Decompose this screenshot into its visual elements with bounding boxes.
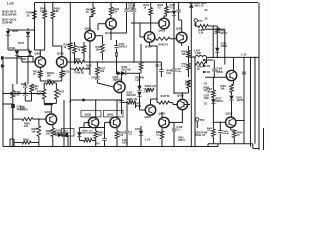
svg-text:150: 150 — [113, 11, 118, 14]
text bottom awf — [96, 144, 100, 146]
svg-text:R445 75: R445 75 — [159, 44, 169, 47]
svg-text:Q403: Q403 — [57, 52, 64, 56]
resistor R416 — [73, 46, 77, 54]
wire R453t stub — [188, 46, 190, 51]
wire Q439 Q441 bases — [79, 122, 111, 128]
wire Q441 emitter — [116, 127, 118, 131]
label Q423 — [159, 29, 166, 33]
wire C415 — [178, 3, 180, 21]
label Q409 — [85, 26, 92, 30]
resistor R453 — [94, 131, 98, 139]
wire output line right — [207, 57, 260, 59]
resistor R463h — [198, 24, 208, 27]
label D453 — [82, 129, 94, 134]
label Q437 — [45, 110, 52, 114]
resistor R415 — [60, 71, 64, 78]
part list Q415 Q417 — [2, 10, 17, 17]
resistor R445 — [156, 37, 170, 40]
svg-text:C417: C417 — [155, 65, 161, 68]
label R419 10k — [96, 46, 103, 52]
transistor Q429 — [177, 99, 187, 109]
wire x64 top — [63, 100, 65, 106]
diode D413 — [121, 71, 125, 75]
label Q403 — [57, 52, 64, 56]
svg-text:Q401: Q401 — [35, 52, 42, 56]
label C433 inbox — [63, 129, 70, 134]
label R415 47 — [64, 71, 71, 77]
label C418 — [176, 68, 182, 73]
capacitor C415 — [176, 10, 180, 12]
capacitor C417 — [159, 70, 163, 72]
wire bus x127 low — [126, 133, 128, 146]
label R413 47 — [33, 71, 40, 77]
svg-text:5.6k: 5.6k — [167, 73, 172, 75]
label R449v — [207, 127, 213, 132]
label D433 — [56, 130, 64, 136]
wire C429 wires — [220, 122, 221, 144]
resistor R455 — [187, 63, 191, 70]
svg-text:6903 -25: 6903 -25 — [195, 6, 205, 8]
wire R487 wires — [38, 118, 40, 142]
wire R411 tail — [25, 92, 31, 101]
label R452 — [156, 131, 162, 137]
wire R489 wires — [52, 124, 54, 146]
label VR405 — [145, 85, 157, 88]
resistor R409 — [11, 91, 15, 99]
capacitor C413 — [95, 77, 99, 80]
label R463 — [199, 29, 205, 35]
label D415b — [135, 128, 141, 131]
label R423 — [64, 44, 70, 50]
wire L-R parallel — [195, 57, 207, 63]
text col C427 — [204, 95, 210, 101]
svg-text:D415: D415 — [135, 128, 141, 131]
label R411 1.8k — [33, 85, 39, 91]
label R461 39k — [221, 85, 227, 91]
wire ladder tail — [17, 57, 36, 85]
transistor Q431 — [226, 117, 236, 127]
svg-text:0.0047: 0.0047 — [223, 132, 230, 135]
transistor Q419 — [144, 32, 155, 43]
wire R461 tail — [231, 93, 233, 96]
label C419 — [177, 126, 183, 132]
label R455b — [119, 132, 125, 138]
capacitor C405 — [23, 85, 27, 88]
inductor L401 — [195, 56, 206, 58]
label Q439 — [85, 112, 92, 116]
resistor R421 — [91, 8, 95, 16]
node box Q441 label — [104, 110, 124, 117]
svg-text:L-24: L-24 — [145, 139, 151, 142]
svg-text:R447 56: R447 56 — [161, 95, 171, 98]
resistor R455b — [115, 131, 119, 139]
label R459 75 — [237, 132, 243, 138]
wire blob to Q437 — [50, 105, 52, 114]
resistor R449v — [212, 129, 216, 137]
label R465 10 — [197, 66, 203, 72]
diode D403 — [26, 32, 30, 36]
wire bottom-right jog — [208, 144, 259, 149]
capacitor C409 — [116, 52, 118, 56]
capacitor C403 blob — [11, 104, 15, 108]
label C425 — [217, 68, 223, 74]
wire D415 wires — [140, 126, 142, 147]
wire bus x174 low — [173, 15, 183, 94]
capacitor C418 inline — [172, 69, 176, 71]
label R439col — [135, 77, 141, 83]
svg-text:10/50: 10/50 — [122, 143, 128, 145]
label D417 — [168, 11, 173, 14]
wire R455b tail — [116, 139, 118, 147]
wire C437 wires — [104, 128, 106, 147]
label C429 — [223, 130, 230, 135]
label R433 1k — [58, 91, 64, 97]
label 5W — [141, 78, 145, 80]
label R403 1.8k — [54, 8, 61, 14]
wire x64 bus — [63, 106, 65, 147]
resistor R443 — [165, 6, 169, 14]
resistor R451 — [84, 139, 93, 142]
diode D427 — [211, 99, 215, 103]
label D425 10D4 — [195, 2, 207, 8]
label C417 — [155, 65, 161, 68]
resistor R456 — [187, 80, 191, 88]
resistor R485 — [22, 118, 33, 121]
wire top supply rail — [35, 2, 259, 4]
resistor R487 — [37, 126, 41, 137]
resistor R439 — [33, 11, 37, 20]
wire bus x250 — [250, 57, 251, 147]
capacitor C419 — [172, 129, 176, 131]
wire R452 tail — [161, 139, 163, 147]
wire R459 tail — [233, 138, 235, 144]
node input arrow 2 — [1, 64, 5, 68]
label R409 5.6k — [15, 91, 22, 97]
svg-text:Q429: Q429 — [177, 94, 184, 98]
wire Q419 base — [131, 23, 160, 37]
wire R491 wires — [10, 139, 39, 147]
label D407 — [18, 41, 25, 45]
label C435 box — [219, 30, 227, 36]
wire terminal — [195, 22, 196, 27]
svg-text:10D01: 10D01 — [178, 140, 185, 142]
svg-text:1.8k: 1.8k — [99, 70, 104, 73]
svg-text:100/6.3: 100/6.3 — [219, 33, 227, 35]
wire box mid — [213, 26, 217, 57]
label L-24 — [145, 139, 151, 142]
label R449 5.6k — [167, 70, 173, 76]
wire Q427 base — [140, 109, 147, 111]
svg-text:D41: D41 — [168, 11, 173, 14]
svg-text:100: 100 — [46, 133, 51, 136]
wire R401 top — [45, 3, 53, 11]
label Q405 block — [195, 132, 208, 138]
diode D431 — [229, 96, 233, 100]
transistor Q441 — [110, 117, 120, 127]
resistor R411 — [30, 84, 34, 92]
wire x84 seg — [83, 60, 85, 63]
svg-text:L-ch: L-ch — [7, 2, 14, 6]
capacitor C429 — [218, 131, 222, 134]
resistor R435 — [128, 101, 136, 104]
diode D433 — [58, 133, 68, 137]
wire R409 — [12, 84, 14, 104]
node box Q439 label — [81, 110, 101, 117]
svg-text:35/6.3V: 35/6.3V — [20, 110, 28, 112]
transistor Q437 — [46, 114, 57, 125]
wire D427 tail — [212, 104, 214, 130]
svg-text:VR405 100: VR405 100 — [145, 85, 157, 88]
wire mid join — [70, 61, 161, 75]
label Q425 — [115, 78, 122, 82]
wire Q425 emitter — [121, 92, 123, 100]
wire D431 tail — [231, 100, 233, 117]
wire Q443 base — [169, 122, 174, 124]
wire C403 tail — [12, 108, 14, 147]
wire collector bus y100 — [70, 99, 121, 101]
svg-text:120p: 120p — [176, 71, 182, 73]
wire Q425 collector — [121, 73, 123, 82]
text bottom D455 — [178, 137, 185, 143]
label R487 10k — [32, 128, 38, 134]
label R435 10k — [127, 98, 138, 101]
resistor R405 — [74, 67, 84, 70]
wire Q421 collector — [179, 20, 182, 33]
wire Q435 emitter — [232, 80, 234, 84]
wire R423 tail — [70, 49, 72, 146]
label D411 — [10, 46, 17, 50]
wire D411 D413 wire — [116, 62, 140, 74]
label D417col — [135, 103, 142, 109]
transistor Q421 — [176, 32, 187, 43]
svg-text:120p: 120p — [204, 97, 210, 100]
wire Q435 base feed — [205, 76, 228, 78]
label R441 1k — [144, 4, 150, 10]
svg-text:D405: D405 — [12, 29, 19, 33]
svg-text:1.8k: 1.8k — [40, 10, 45, 13]
label C403 — [17, 106, 26, 112]
label Q427 — [145, 115, 152, 119]
node pin arrow 1 — [203, 59, 213, 61]
wire R449v tail — [212, 137, 214, 144]
node input arrow 1 — [1, 56, 5, 60]
label Q413 — [105, 31, 112, 35]
label R455 5.1k — [182, 63, 188, 68]
node dots bottom rail — [12, 146, 196, 147]
transistor Q425 — [114, 81, 125, 92]
label D413 — [21, 58, 27, 61]
wire far right vertical — [263, 128, 265, 150]
wire loop sides — [44, 83, 56, 103]
resistor R489 — [51, 128, 55, 137]
svg-text:100: 100 — [47, 75, 52, 78]
label L-25 — [241, 53, 247, 57]
wire C419 wires — [173, 122, 175, 146]
wire R456 tail — [182, 88, 188, 93]
svg-text:3.3k: 3.3k — [75, 61, 80, 64]
label VR401 — [47, 72, 55, 78]
label Q443 — [159, 112, 166, 116]
wire mid horiz y104 — [2, 103, 13, 104]
svg-text:R435 10k: R435 10k — [127, 98, 138, 101]
transistor Q439 — [88, 117, 98, 127]
label D421 — [127, 92, 137, 98]
label C421 — [127, 100, 133, 106]
wire Q443 emitter — [161, 128, 163, 132]
label R451 — [84, 137, 93, 140]
svg-text:1.8k: 1.8k — [54, 10, 59, 13]
capacitor C421 — [119, 101, 123, 103]
diode D425 — [189, 3, 193, 7]
diode D411 — [117, 71, 121, 75]
capacitor C427 — [242, 72, 246, 74]
wire bus x70 top — [70, 2, 71, 43]
wire R445 joins — [150, 39, 182, 103]
svg-text:R451 1k: R451 1k — [84, 137, 93, 140]
wire Q413 collector — [110, 3, 112, 19]
label R457 56k — [207, 88, 213, 94]
wire Q435 collector — [233, 57, 235, 71]
capacitor C405 — [132, 9, 136, 12]
label L401 — [195, 50, 202, 56]
wire Q401 emitter — [39, 67, 41, 71]
svg-text:10k: 10k — [32, 131, 37, 134]
label C405 — [128, 2, 136, 8]
resistor R437v — [139, 62, 143, 70]
svg-text:Q439: Q439 — [85, 112, 92, 116]
wire Q431 collector right — [236, 120, 245, 122]
resistor R457 — [212, 90, 216, 98]
wire mid horiz y93 — [2, 93, 44, 95]
label R405 — [75, 72, 86, 75]
capacitor C425 — [212, 69, 216, 71]
transistor Q427 — [145, 105, 155, 115]
text bottom 10D1 — [122, 139, 128, 145]
svg-text:Q427: Q427 — [145, 115, 152, 119]
svg-text:10D01: 10D01 — [221, 46, 228, 48]
label Q441 — [107, 112, 114, 116]
label 100/1.8k — [21, 83, 27, 86]
svg-text:56k: 56k — [207, 91, 212, 94]
resistor R441 — [149, 8, 153, 16]
wire Q403 collector — [53, 19, 62, 58]
wire box right — [202, 29, 226, 64]
diode D415b — [139, 131, 143, 135]
svg-text:1.8k: 1.8k — [33, 88, 38, 91]
label R447 56 — [161, 95, 171, 98]
resistor R401 — [43, 11, 47, 19]
resistor R452 — [160, 131, 164, 139]
wire Q413 base — [98, 24, 107, 30]
wire R457 wires — [212, 77, 214, 99]
label R401 1.8k — [40, 8, 47, 14]
wire Q439 emitter — [95, 127, 97, 131]
wire feedback bus x195 — [194, 57, 196, 147]
label 100 — [47, 80, 52, 82]
capacitor C433 box — [62, 129, 75, 137]
wire Q443 collector — [161, 112, 163, 118]
wire R485 wires — [13, 108, 46, 119]
node terminal TP1 — [194, 19, 203, 23]
node blob bar — [44, 103, 53, 105]
resistor R473 — [216, 28, 220, 34]
diode D420 — [137, 92, 141, 96]
wire C425 wires — [214, 60, 215, 78]
wire C407 — [126, 3, 128, 24]
label Q429 — [177, 94, 184, 98]
svg-text:C413: C413 — [91, 77, 97, 80]
node dots top rail — [44, 2, 192, 3]
wire bus x244 — [243, 57, 245, 95]
wire Q431 base — [213, 122, 226, 124]
wire Q429 to Q443 — [170, 118, 183, 123]
wire bus x174 — [173, 3, 175, 11]
label Q419 — [145, 45, 152, 49]
resistor R419 — [101, 44, 105, 53]
svg-text:Q441: Q441 — [107, 112, 114, 116]
svg-text:Q409: Q409 — [85, 26, 92, 30]
wire Q403 base — [67, 61, 72, 63]
resistor R447 — [159, 101, 170, 104]
label R427 1.8k — [99, 68, 105, 74]
wire Q409 emitter — [89, 41, 90, 62]
label C411 — [119, 43, 128, 49]
wire bus x127 — [126, 102, 128, 130]
wire out node bus — [191, 57, 193, 147]
resistor R491 — [22, 141, 31, 144]
wire left edge bus — [2, 56, 4, 147]
label C435 — [129, 131, 133, 136]
wire ladder top — [8, 28, 28, 30]
resistor R427 — [96, 67, 100, 75]
transistor Q435 — [226, 70, 236, 80]
label R453 120 — [182, 51, 188, 57]
node TP2 — [196, 118, 205, 122]
label R407 3.3k — [75, 58, 82, 64]
label R491 — [23, 139, 29, 145]
node label L-ch — [7, 2, 14, 6]
label R439 1k — [27, 11, 34, 18]
part list Q411 Q413 — [2, 18, 17, 25]
resistor R429 — [109, 7, 113, 15]
label R405b — [86, 65, 92, 71]
label VR403 2.2k — [144, 88, 152, 94]
diode D451b — [77, 132, 81, 136]
wire bus x244 low — [243, 95, 245, 144]
transistor Q403 — [57, 57, 68, 68]
svg-text:100µ: 100µ — [21, 83, 27, 86]
svg-text:MA151K: MA151K — [127, 94, 137, 97]
svg-text:MJ15024/B: MJ15024/B — [2, 13, 16, 17]
text col -26 — [204, 83, 208, 86]
resistor R403 — [51, 11, 55, 19]
label L-26 — [204, 9, 208, 12]
svg-text:MA151K: MA151K — [122, 68, 131, 71]
svg-text:1k: 1k — [27, 13, 30, 17]
svg-text:Q423: Q423 — [159, 29, 166, 33]
svg-text:100Ω -05: 100Ω -05 — [195, 134, 206, 137]
resistor R417 — [82, 46, 86, 54]
label Q435 — [217, 70, 224, 74]
resistor R431 — [42, 89, 46, 99]
node pin arrow 3 — [203, 71, 210, 73]
wire C417 wires — [160, 62, 162, 77]
wire bus x134 — [133, 2, 135, 63]
wire Q401 base — [28, 61, 36, 63]
svg-text:100/6.3: 100/6.3 — [119, 46, 128, 49]
label R445 75 — [159, 44, 169, 47]
svg-text:Q431: Q431 — [226, 112, 233, 116]
